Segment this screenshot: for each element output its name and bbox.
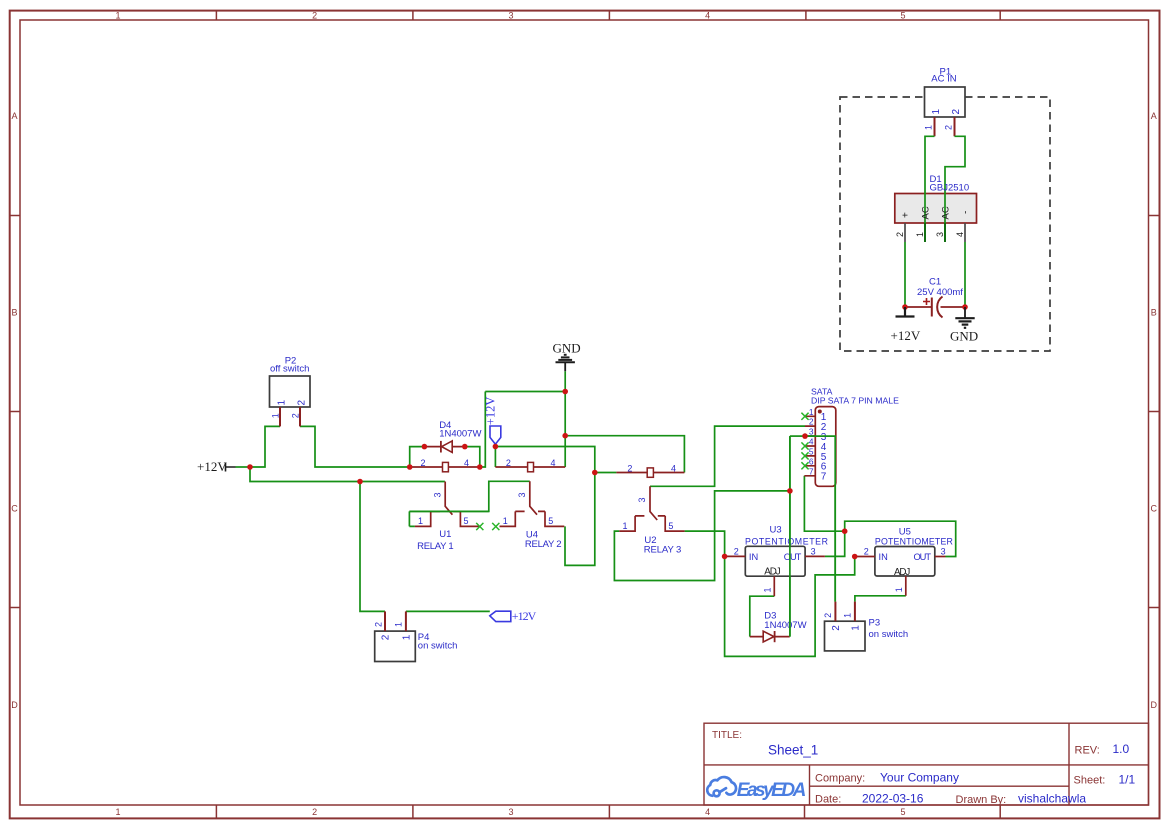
- svg-text:2: 2: [312, 807, 317, 817]
- svg-text:Company:: Company:: [815, 772, 865, 784]
- svg-text:2: 2: [864, 547, 869, 557]
- svg-text:on switch: on switch: [869, 629, 909, 640]
- svg-text:1: 1: [623, 521, 628, 531]
- svg-text:+12V: +12V: [483, 397, 497, 426]
- wire GND down to U4 coil4: [564, 392, 566, 468]
- no-connect SATA pin 4: [801, 442, 808, 449]
- relay U1 switch: [415, 482, 480, 553]
- svg-text:1.0: 1.0: [1113, 742, 1130, 756]
- svg-text:Sheet_1: Sheet_1: [768, 742, 818, 757]
- ruler tick sides: [10, 216, 1160, 608]
- GND symbol (top, main): [553, 341, 581, 372]
- junction U1 coil pin4: [477, 464, 483, 470]
- U2 pin 5: [665, 516, 684, 531]
- P1 pin 1: [934, 117, 936, 136]
- U3 body: [745, 546, 805, 576]
- diode D3 1N4007W: [750, 611, 807, 643]
- junction D4 anode: [422, 444, 428, 450]
- bridge rectifier D1: [895, 194, 977, 224]
- U1 pin 1: [415, 511, 431, 526]
- U3 pin 2 lead: [725, 555, 746, 557]
- U1 contact bars: [431, 510, 461, 512]
- U4 coil rect: [528, 462, 534, 471]
- junction +12V flag: [493, 444, 499, 450]
- wire overdraw: SATA pin3 to D3 cathode (over U3 body): [789, 436, 791, 636]
- svg-text:OUT: OUT: [784, 552, 802, 562]
- svg-text:2: 2: [506, 458, 511, 468]
- svg-text:+12V: +12V: [891, 328, 921, 343]
- SATA pin-1 marker dot: [818, 410, 822, 414]
- module dashed box: [840, 97, 1050, 351]
- U4 pin 3: [530, 481, 537, 514]
- svg-text:1: 1: [277, 400, 288, 406]
- +12V net flag (left-pointing, near P4): [490, 609, 537, 623]
- svg-text:4: 4: [809, 437, 814, 447]
- title block outline: [704, 723, 1149, 805]
- svg-text:-: -: [961, 211, 972, 214]
- svg-text:7: 7: [821, 472, 827, 483]
- wire overdraw: SATA pin3 to P3 pin2 (over SATA body): [805, 436, 835, 601]
- SATA body: [815, 407, 836, 487]
- svg-text:2: 2: [297, 400, 308, 406]
- wire +12V port to junction: [236, 466, 251, 468]
- svg-text:2: 2: [809, 417, 814, 427]
- U4 pin 1: [500, 511, 516, 526]
- +12V net port (left): [197, 459, 236, 474]
- connector P2 off switch: [270, 355, 311, 426]
- wire D1.2 to +12V rail: [904, 242, 906, 307]
- connector P1: [925, 87, 966, 117]
- SATA pin stubs: [804, 416, 815, 476]
- relay U2 switch: [619, 486, 684, 555]
- svg-text:1: 1: [271, 413, 281, 418]
- capacitor C1 plate curved: [937, 297, 942, 318]
- wire P2 pin2 to rail: [300, 426, 410, 467]
- svg-text:D: D: [1151, 700, 1158, 710]
- svg-text:A: A: [11, 111, 17, 121]
- svg-text:2: 2: [291, 413, 301, 418]
- diode D4 1N4007W: [424, 420, 481, 453]
- junction SATA pin7 net: [842, 528, 848, 534]
- svg-text:4: 4: [551, 458, 556, 468]
- svg-text:Sheet:: Sheet:: [1074, 774, 1106, 786]
- P2 pin 2: [299, 407, 301, 426]
- D3 cathode bar: [774, 631, 776, 642]
- svg-text:B: B: [1151, 308, 1157, 318]
- svg-text:3: 3: [508, 11, 513, 21]
- ground symbol GND: [955, 307, 974, 328]
- svg-text:2: 2: [831, 625, 842, 631]
- U1 pin 3: [445, 482, 452, 515]
- svg-text:6: 6: [809, 456, 814, 466]
- U1 coil rect: [443, 462, 449, 471]
- svg-text:1N4007W: 1N4007W: [439, 428, 481, 439]
- +12V net flag (down-pointing, above U4 coil): [483, 397, 501, 445]
- wire +12V flag to U2 coil2: [495, 447, 616, 473]
- svg-text:1: 1: [809, 407, 814, 417]
- wire U1 pin1 to U4 pin3: [409, 481, 529, 526]
- svg-text:2: 2: [421, 458, 426, 468]
- wire +12V flag to U4 coil2: [494, 447, 496, 468]
- svg-text:1: 1: [418, 516, 423, 526]
- wire U1 coil4 to GND net: [480, 392, 486, 468]
- junction +12V rail: [247, 464, 253, 470]
- D3 triangle: [763, 631, 774, 642]
- svg-text:RELAY 1: RELAY 1: [417, 541, 454, 552]
- svg-text:1N4007W: 1N4007W: [764, 620, 806, 631]
- U4 contact bars: [515, 510, 545, 512]
- svg-text:1: 1: [931, 109, 942, 115]
- svg-text:IN: IN: [749, 552, 758, 562]
- svg-text:4: 4: [464, 458, 469, 468]
- svg-text:C1: C1: [929, 277, 941, 288]
- D1 pin 1 stub: [924, 223, 926, 242]
- U5 pin 3 lead: [935, 556, 946, 558]
- wire overdraw: U1 contact row wire: [409, 510, 488, 512]
- svg-text:2: 2: [944, 125, 954, 130]
- no-connect SATA pin 1: [801, 413, 808, 420]
- svg-text:AC: AC: [941, 206, 952, 219]
- potentiometer U3: [725, 524, 828, 596]
- junction at C1 left: [902, 304, 908, 310]
- svg-text:A: A: [1151, 111, 1157, 121]
- svg-text:on switch: on switch: [418, 640, 458, 651]
- D4 leads: [424, 446, 464, 448]
- wire SATA pin3 to P3 pin2: [805, 436, 835, 601]
- svg-text:+: +: [901, 212, 912, 218]
- wire U4 pin5 loop: [565, 473, 595, 566]
- P3 pin 1: [854, 602, 856, 622]
- D3 leads: [750, 636, 790, 638]
- svg-text:3: 3: [935, 232, 945, 237]
- svg-text:2022-03-16: 2022-03-16: [862, 792, 924, 806]
- P3 box: [825, 621, 866, 651]
- svg-text:+12V: +12V: [197, 459, 227, 474]
- svg-text:2: 2: [895, 232, 905, 237]
- wire P1.2 to D1.3: [945, 136, 965, 242]
- D4 cathode bar: [440, 441, 442, 453]
- junction dots: [247, 389, 857, 560]
- U4 pin 5: [545, 511, 564, 526]
- svg-text:U1: U1: [439, 529, 451, 540]
- ruler tick top: [216, 11, 1000, 20]
- D1 pin 3 stub: [944, 223, 946, 242]
- junction D3 cathode net: [787, 488, 793, 494]
- junction D4 cathode: [462, 444, 468, 450]
- svg-text:RELAY 3: RELAY 3: [644, 545, 682, 556]
- EasyEDA logo: [707, 777, 806, 801]
- no-connect U4 pin 1: [492, 523, 499, 530]
- svg-text:ADJ: ADJ: [764, 567, 780, 578]
- svg-text:3: 3: [432, 492, 442, 497]
- svg-text:2: 2: [734, 547, 739, 557]
- wire junction to U5 OUT: [845, 521, 956, 556]
- svg-text:2: 2: [823, 613, 833, 618]
- P4 box: [375, 631, 416, 661]
- wire GND row to U2 coil4: [565, 436, 684, 473]
- wire lower rail to U1 pin3: [250, 467, 445, 482]
- svg-text:25V 400mf: 25V 400mf: [917, 287, 963, 298]
- svg-text:off switch: off switch: [270, 363, 309, 374]
- svg-text:3: 3: [517, 492, 527, 497]
- svg-text:B: B: [11, 308, 17, 318]
- D1 pin 4 stub: [964, 223, 966, 242]
- wire U2 pin5 to U3 IN: [685, 531, 725, 556]
- svg-text:C: C: [11, 504, 18, 514]
- wire D4 right leg: [465, 447, 480, 467]
- U3 pin 3 lead: [805, 555, 825, 557]
- wire GND row to left: [485, 391, 565, 393]
- +12V power bar symbol: [896, 307, 915, 317]
- P2 pin 1: [279, 407, 281, 426]
- D1 pin 2 stub: [904, 223, 906, 242]
- svg-text:GBJ2510: GBJ2510: [930, 183, 970, 194]
- svg-text:4: 4: [705, 11, 710, 21]
- svg-text:5: 5: [548, 516, 553, 526]
- wire U3 OUT to junction: [825, 531, 845, 556]
- svg-text:C: C: [1151, 504, 1158, 514]
- svg-text:3: 3: [809, 427, 814, 437]
- svg-text:IN: IN: [879, 552, 888, 562]
- SATA outside pin numbers: [809, 407, 814, 477]
- junction U2 coil pin2: [592, 470, 598, 476]
- svg-text:1: 1: [503, 516, 508, 526]
- wire SATA pin3 left: [790, 435, 805, 437]
- SATA inside pin numbers: [821, 412, 827, 483]
- wire U5 ADJ to P3 pin1: [855, 596, 906, 602]
- svg-text:2: 2: [312, 11, 317, 21]
- U1 coil leads: [410, 466, 480, 468]
- SATA connector: [804, 387, 899, 487]
- U2 coil rect: [647, 468, 653, 477]
- svg-text:2: 2: [374, 622, 384, 627]
- junction at C1 right: [962, 304, 968, 310]
- svg-text:D: D: [11, 700, 18, 710]
- P4 pin 1: [405, 611, 407, 631]
- svg-text:5: 5: [809, 446, 814, 456]
- svg-text:2: 2: [951, 109, 962, 115]
- relay U2 coil: [616, 463, 684, 477]
- svg-text:TITLE:: TITLE:: [712, 730, 742, 741]
- svg-text:1: 1: [843, 613, 853, 618]
- wire D1.4 to GND rail: [964, 242, 966, 307]
- no-connect X marks: [476, 413, 808, 530]
- svg-text:1: 1: [115, 807, 120, 817]
- svg-text:Drawn By:: Drawn By:: [956, 794, 1007, 806]
- svg-text:ADJ: ADJ: [894, 567, 910, 578]
- svg-text:1: 1: [851, 625, 862, 631]
- junction U5 IN: [852, 554, 858, 560]
- junction SATA pin3: [802, 433, 808, 439]
- capacitor C1 lead left: [905, 306, 932, 308]
- junction U3 IN: [722, 554, 728, 560]
- capacitor C1 lead right: [941, 306, 966, 308]
- svg-text:1: 1: [394, 622, 404, 627]
- junction lower rail: [357, 479, 363, 485]
- wire GND stem: [564, 371, 566, 391]
- svg-text:3: 3: [508, 807, 513, 817]
- svg-text:3: 3: [811, 547, 816, 557]
- junction U1 coil pin2: [407, 464, 413, 470]
- relay U4 coil: [495, 458, 565, 472]
- connector P3 on switch: [823, 602, 908, 651]
- connector P4 on switch: [374, 611, 458, 661]
- svg-text:1: 1: [763, 587, 773, 592]
- wire rail down to P4 pin2: [360, 482, 385, 612]
- junction GND top: [562, 389, 568, 395]
- svg-text:vishalchawla: vishalchawla: [1018, 792, 1086, 806]
- P3 pin 2: [834, 602, 836, 622]
- svg-text:DIP SATA 7 PIN MALE: DIP SATA 7 PIN MALE: [811, 395, 899, 405]
- wire P4 pin1 to +12V flag: [406, 610, 490, 612]
- svg-text:REV:: REV:: [1075, 745, 1100, 757]
- relay U1 coil: [410, 458, 480, 472]
- svg-text:1: 1: [894, 587, 904, 592]
- P2 box: [270, 376, 311, 407]
- wire D4 left leg: [410, 447, 425, 467]
- ruler tick bottom: [216, 805, 1000, 818]
- svg-text:OUT: OUT: [914, 552, 932, 562]
- U4 coil leads: [495, 466, 565, 468]
- svg-text:Date:: Date:: [815, 794, 841, 806]
- U3 pin 1 ADJ lead: [773, 576, 775, 596]
- +12V port tick: [226, 463, 236, 472]
- wire U2 pin3 to SATA pin2: [650, 426, 805, 486]
- svg-text:RELAY 2: RELAY 2: [525, 539, 562, 550]
- svg-text:+12V: +12V: [512, 609, 537, 623]
- svg-text:P3: P3: [869, 617, 881, 628]
- U2 pin 3: [650, 486, 657, 520]
- svg-text:4: 4: [705, 807, 710, 817]
- C1 polarity +: [923, 298, 930, 305]
- wire SATA pin3 to D3 cathode: [789, 436, 791, 636]
- svg-text:4: 4: [955, 232, 965, 237]
- svg-text:3: 3: [637, 497, 647, 502]
- svg-text:Your Company: Your Company: [880, 771, 959, 785]
- wire U2 pin1 to SATA pin3 net: [614, 491, 790, 581]
- svg-text:GND: GND: [950, 329, 978, 344]
- svg-text:EasyEDA: EasyEDA: [737, 780, 807, 801]
- U5 pin 2 lead: [855, 556, 875, 558]
- junction GND row: [562, 433, 568, 439]
- potentiometer U5: [855, 527, 953, 596]
- svg-text:1: 1: [924, 125, 934, 130]
- svg-text:5: 5: [900, 807, 905, 817]
- svg-text:U3: U3: [770, 524, 782, 535]
- U2 contact bars: [635, 515, 665, 517]
- U2 pin 1: [619, 516, 635, 531]
- svg-text:AC IN: AC IN: [931, 74, 956, 85]
- wire U3 ADJ to D3 anode: [750, 596, 775, 636]
- svg-text:1: 1: [115, 11, 120, 21]
- U2 coil leads: [616, 472, 684, 474]
- svg-text:5: 5: [668, 521, 673, 531]
- U1 pin 5: [460, 511, 479, 526]
- U5 pin 1 ADJ lead: [905, 576, 907, 596]
- no-connect SATA pin 5: [801, 452, 808, 459]
- svg-text:GND: GND: [553, 341, 581, 356]
- svg-text:POTENTIOMETER: POTENTIOMETER: [745, 537, 828, 547]
- svg-text:4: 4: [671, 463, 676, 473]
- svg-text:7: 7: [809, 466, 814, 476]
- svg-text:AC: AC: [921, 206, 932, 219]
- svg-text:5: 5: [900, 11, 905, 21]
- svg-text:1: 1: [401, 634, 412, 640]
- svg-text:1: 1: [915, 232, 925, 237]
- wire SATA pin7 down: [804, 476, 844, 531]
- wire U3 IN loop to U5 IN: [725, 556, 855, 656]
- +12V flag shape: [490, 611, 511, 621]
- svg-text:2: 2: [627, 463, 632, 473]
- svg-text:POTENTIOMETER: POTENTIOMETER: [875, 537, 953, 547]
- svg-text:5: 5: [464, 516, 469, 526]
- svg-text:3: 3: [941, 547, 946, 557]
- svg-text:2: 2: [381, 634, 392, 640]
- capacitor C1 plate straight: [931, 298, 933, 317]
- ground symbol: [556, 355, 575, 371]
- no-connect SATA pin 6: [801, 462, 808, 469]
- D4 triangle: [442, 441, 453, 453]
- wire P1.1 to D1.1: [925, 136, 935, 242]
- P4 pin 2: [384, 611, 386, 631]
- wire rail to P2 pin1: [250, 426, 280, 467]
- P1 pin 2: [954, 117, 956, 136]
- svg-text:1/1: 1/1: [1119, 772, 1136, 786]
- relay U4 switch: [500, 481, 565, 550]
- no-connect U1 pin 5: [476, 523, 483, 530]
- +12V flag shape: [490, 426, 501, 444]
- U5 body: [875, 547, 935, 577]
